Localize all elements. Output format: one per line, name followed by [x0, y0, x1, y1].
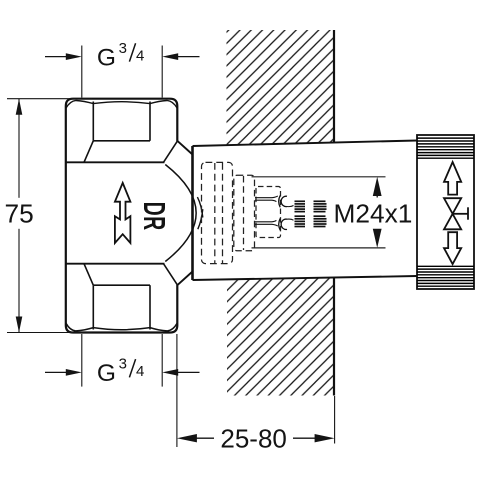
top hex flat right	[149, 102, 151, 141]
svg-text:G: G	[97, 44, 116, 71]
75 extension line bottom	[7, 332, 92, 334]
cap symbol valve stem	[453, 213, 468, 215]
25-80 extension line left	[176, 334, 178, 447]
thread block upper right	[314, 201, 327, 211]
G 3/4 top label	[97, 40, 144, 71]
top hex base line	[66, 161, 165, 163]
bottom hex nut top line	[66, 263, 165, 265]
75 extension line top	[7, 98, 92, 100]
M24 thread silhouette bottom line	[252, 247, 386, 249]
top hex flat left	[92, 102, 94, 141]
svg-text:DR: DR	[137, 202, 171, 231]
svg-text:75: 75	[5, 198, 34, 228]
valve cone top edge	[193, 141, 418, 147]
bottom right corner slant to cone	[177, 272, 192, 286]
spindle clip upper	[272, 196, 278, 202]
cap symbol up arrow	[444, 162, 461, 195]
spindle tube lines lower	[255, 221, 272, 223]
cap symbol down arrow	[444, 232, 461, 264]
M24x1 dimension arrow up	[373, 177, 382, 196]
75 dimension line	[18, 99, 20, 198]
75 arrow top	[16, 99, 23, 115]
svg-text:M24x1: M24x1	[334, 198, 413, 228]
svg-text:4: 4	[136, 47, 144, 64]
thread block lower left	[295, 216, 306, 226]
svg-text:4: 4	[136, 363, 144, 380]
thread block upper left	[295, 201, 306, 211]
top right corner slant to cone	[177, 141, 192, 155]
bottom hex chamfer arcs	[66, 323, 177, 331]
G 3/4 top dimension arrows	[45, 56, 67, 58]
spindle tube lines upper	[255, 197, 272, 199]
M24 thread silhouette top line	[252, 176, 386, 178]
svg-text:25-80: 25-80	[220, 423, 287, 453]
wall upper hatched section	[227, 30, 335, 145]
thread block lower right	[314, 216, 327, 226]
top hex bevel left	[84, 141, 93, 163]
valve cone bottom edge	[193, 276, 418, 280]
protective cap body	[417, 135, 474, 289]
spindle clip lower	[272, 220, 278, 226]
valve cone left face	[191, 146, 194, 280]
valve body outline	[66, 99, 178, 333]
top hex inner line	[93, 140, 150, 142]
svg-text:3: 3	[119, 40, 127, 57]
25-80 dimension arrow left	[177, 434, 197, 442]
bottom hex flat right	[149, 285, 151, 329]
G 3/4 top extension lines	[81, 46, 83, 98]
bottom hex flat left	[92, 285, 94, 329]
bottom hex bevel right	[164, 264, 178, 285]
G 3/4 bottom extension lines	[81, 334, 83, 387]
bottom hex inner line	[93, 284, 150, 286]
wall front face edge upper	[333, 30, 335, 143]
G 3/4 bottom dimension arrows	[45, 371, 67, 373]
25-80 dimension arrow right	[315, 434, 335, 442]
top hex bevel right	[164, 141, 178, 162]
wall front face edge lower	[333, 277, 335, 395]
cartridge dashed internal line 3	[243, 176, 245, 250]
cap knurl band bottom	[417, 266, 474, 286]
cartridge dashed head box	[234, 175, 255, 250]
cartridge dashed internal line 1	[214, 163, 216, 263]
cartridge dashed neck S6	[256, 187, 281, 238]
cartridge dashed internal line 2	[222, 163, 224, 263]
cap knurl band top	[417, 138, 474, 158]
G 3/4 bottom label	[97, 356, 144, 387]
junction crossing segment upper	[197, 197, 202, 217]
cap symbol valve lower triangle	[444, 214, 461, 230]
25-80 extension line right	[334, 396, 336, 444]
M24x1 dimension arrow down	[373, 229, 382, 248]
tee junction arc	[165, 165, 196, 262]
75 arrow bottom	[16, 317, 23, 333]
cap symbol valve upper triangle	[444, 198, 461, 214]
svg-text:G: G	[97, 360, 116, 387]
wall lower hatched section	[227, 277, 334, 395]
svg-text:3: 3	[119, 356, 127, 373]
junction crossing segment lower	[198, 209, 203, 229]
flow direction arrow	[115, 183, 130, 243]
bottom hex bevel left	[84, 264, 93, 286]
top hex nut chamfer arcs	[66, 100, 177, 108]
cartridge dashed body box	[202, 162, 233, 263]
